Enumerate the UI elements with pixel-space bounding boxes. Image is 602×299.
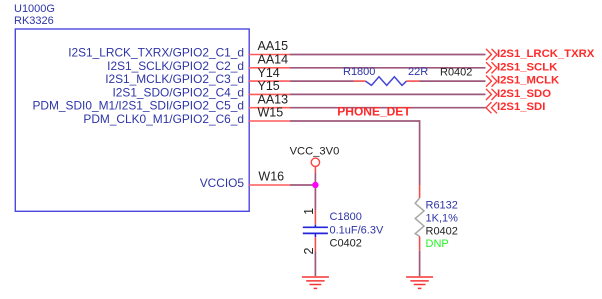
refdes U1000G	[14, 3, 55, 15]
wire junction down to C1800	[314, 188, 316, 210]
svg-text:R0402: R0402	[440, 66, 472, 78]
svg-text:2: 2	[302, 247, 316, 254]
wire row2 AA14 to I2S1_SCLK	[290, 67, 486, 69]
pin AA15 I2S1_LRCK_TXRX/GPIO2_C1_d	[68, 39, 290, 59]
pin Y14 I2S1_MCLK/GPIO2_C3_d	[105, 66, 290, 86]
wire row3 left Y14 to R1800	[290, 80, 354, 82]
svg-text:PHONE_DET: PHONE_DET	[337, 105, 411, 119]
off-page connector I2S1_LRCK_TXRX	[486, 48, 595, 60]
junction dot	[312, 182, 318, 188]
svg-text:R0402: R0402	[426, 225, 458, 237]
svg-text:DNP: DNP	[426, 238, 449, 250]
svg-text:AA14: AA14	[258, 53, 289, 67]
pin W16 VCCIO5	[200, 170, 290, 190]
svg-text:22R: 22R	[408, 66, 428, 78]
svg-text:1: 1	[302, 208, 316, 215]
pin W15 PDM_CLK0_M1/GPIO2_C6_d	[83, 106, 290, 126]
svg-text:I2S1_LRCK_TXRX/GPIO2_C1_d: I2S1_LRCK_TXRX/GPIO2_C1_d	[68, 46, 244, 60]
svg-text:I2S1_SCLK/GPIO2_C2_d: I2S1_SCLK/GPIO2_C2_d	[107, 59, 244, 73]
ground under C1800	[302, 277, 329, 288]
svg-text:0.1uF/6.3V: 0.1uF/6.3V	[330, 224, 384, 236]
svg-text:PDM_CLK0_M1/GPIO2_C6_d: PDM_CLK0_M1/GPIO2_C6_d	[83, 112, 244, 126]
wire row5 AA13 to I2S1_SDI	[290, 107, 486, 109]
svg-text:1K,1%: 1K,1%	[426, 213, 459, 225]
pin AA13 PDM_SDI0_M1/I2S1_SDI/GPIO2_C5_d	[33, 92, 291, 112]
svg-text:W15: W15	[258, 106, 284, 120]
svg-text:I2S1_LRCK_TXRX: I2S1_LRCK_TXRX	[497, 48, 595, 60]
IC U1000G body	[15, 29, 249, 211]
value RK3326	[14, 15, 54, 27]
svg-text:I2S1_SDI: I2S1_SDI	[497, 101, 545, 113]
wire row1 AA15 to I2S1_LRCK_TXRX	[290, 54, 486, 56]
svg-text:RK3326: RK3326	[14, 15, 54, 27]
svg-text:Y15: Y15	[258, 79, 280, 93]
svg-text:VCCIO5: VCCIO5	[200, 176, 245, 190]
svg-text:AA15: AA15	[258, 39, 289, 53]
off-page connector I2S1_MCLK	[486, 75, 560, 87]
svg-text:I2S1_SDO/GPIO2_C4_d: I2S1_SDO/GPIO2_C4_d	[112, 85, 244, 99]
svg-text:AA13: AA13	[258, 92, 289, 106]
wire row3 right R1800 to I2S1_MCLK	[420, 80, 486, 82]
svg-text:I2S1_SCLK: I2S1_SCLK	[497, 61, 558, 73]
wire W16 to junction	[290, 184, 313, 186]
svg-text:PDM_SDI0_M1/I2S1_SDI/GPIO2_C5_: PDM_SDI0_M1/I2S1_SDI/GPIO2_C5_d	[33, 99, 245, 113]
capacitor C1800	[302, 208, 384, 255]
wire row6 W15 PHONE_DET horizontal	[290, 120, 420, 122]
svg-text:R1800: R1800	[343, 66, 375, 78]
svg-text:U1000G: U1000G	[14, 3, 55, 15]
resistor R6132	[415, 185, 458, 251]
off-page connector I2S1_SCLK	[486, 61, 558, 73]
off-page connector I2S1_SDO	[486, 88, 551, 100]
wire row4 Y15 to I2S1_SDO	[290, 93, 486, 95]
svg-text:I2S1_MCLK/GPIO2_C3_d: I2S1_MCLK/GPIO2_C3_d	[105, 72, 244, 86]
svg-text:C1800: C1800	[330, 211, 362, 223]
svg-text:C0402: C0402	[330, 238, 362, 250]
wire C1800 to ground	[314, 252, 316, 277]
resistor R1800	[343, 66, 472, 86]
ground under R6132	[406, 277, 433, 288]
wire PHONE_DET vertical drop to R6132	[419, 120, 421, 185]
svg-text:R6132: R6132	[426, 199, 458, 211]
wire R6132 to ground	[419, 251, 421, 277]
svg-text:Y14: Y14	[258, 66, 280, 80]
svg-text:VCC_3V0: VCC_3V0	[290, 145, 340, 157]
svg-text:W16: W16	[258, 170, 284, 184]
svg-text:I2S1_MCLK: I2S1_MCLK	[497, 75, 560, 87]
power symbol VCC_3V0	[290, 145, 340, 182]
off-page connector I2S1_SDI	[486, 101, 545, 113]
net label PHONE_DET	[337, 105, 411, 119]
svg-text:I2S1_SDO: I2S1_SDO	[497, 88, 551, 100]
pin Y15 I2S1_SDO/GPIO2_C4_d	[112, 79, 290, 99]
pin AA14 I2S1_SCLK/GPIO2_C2_d	[107, 53, 290, 73]
